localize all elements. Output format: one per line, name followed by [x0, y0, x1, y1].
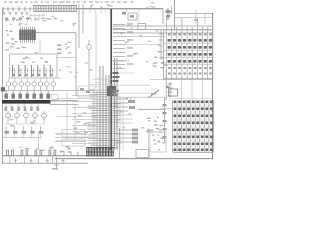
- wire IC pin stubs left: [95, 79, 100, 91]
- box tuner shield: [10, 54, 58, 78]
- resistor row R1-R4: [29, 14, 45, 21]
- text page header: [4, 1, 155, 8]
- text under connector: [46, 16, 76, 26]
- connector CN2 flat cable header: [33, 6, 77, 12]
- arrow pointer mark: [148, 90, 159, 98]
- wire horizontal y61: [112, 60, 130, 62]
- wire vertical feed x76: [75, 33, 77, 96]
- wire horizontal y57: [56, 57, 76, 59]
- text subcircuit cluster: [73, 112, 89, 138]
- capacitor glyph row 2: [3, 12, 29, 16]
- wire band extension upper: [50, 100, 78, 102]
- text right column notes: [153, 51, 168, 68]
- text top-left labels: [5, 16, 46, 21]
- wire bottom frame border: [55, 158, 213, 160]
- text mid labels: [57, 42, 71, 54]
- wire right frame border: [212, 13, 214, 159]
- capacitor row tuner C10-C16: [11, 65, 53, 77]
- wire horizontal y93: [112, 92, 150, 94]
- wire vertical x75: [74, 105, 76, 140]
- text fuse labels: [20, 147, 54, 152]
- wire vertical x166: [165, 70, 167, 100]
- box output stage: [150, 132, 166, 152]
- box small left: [51, 95, 58, 100]
- wire horizontal y44: [113, 44, 158, 46]
- glyph row 3: [5, 18, 29, 23]
- wire stubs right of bundle: [118, 129, 163, 144]
- crystal X1: [87, 40, 92, 92]
- grid2 row lines: [173, 106, 213, 141]
- ground symbol bottom: [52, 157, 59, 170]
- text mid col speckle: [58, 62, 93, 79]
- wire left labels row: [5, 46, 38, 53]
- regulator block top-right: [166, 6, 172, 20]
- wire ticks below top bus: [90, 9, 105, 13]
- wire right bus group: [113, 26, 212, 37]
- filter block Z1: [78, 86, 94, 97]
- wire matrix feed stubs: [194, 10, 205, 24]
- IC U2 24C08 eeprom: [19, 27, 36, 43]
- wire bus feed A: [78, 4, 80, 48]
- grid2 dark cells: [173, 99, 213, 153]
- junction left frame blob: [1, 87, 5, 91]
- wire ribbon bundle verticals: [94, 58, 117, 150]
- wire top-right horizontal bus A: [175, 13, 212, 15]
- wire vertical x148.5: [148, 128, 150, 159]
- capacitor ticks on x161: [159, 34, 164, 58]
- wire vertical x38 lower: [38, 132, 40, 150]
- wire bottom-left rail lower: [2, 162, 88, 164]
- component stack right-mid: [166, 82, 173, 98]
- wire grid link verticals: [182, 79, 203, 100]
- wire bottom-left rail upper: [2, 155, 88, 157]
- grid2 verticals: [173, 100, 214, 153]
- wire bundle left stubs: [56, 95, 97, 143]
- junction bundle blob: [107, 86, 116, 96]
- wire horizontal y85: [112, 84, 150, 86]
- wire top bus right jog: [162, 9, 164, 24]
- wire vertical x96: [95, 12, 97, 90]
- wire horizontal y109 to grid: [138, 108, 166, 110]
- wire mid-left horizontal: [2, 90, 95, 92]
- matrix grid verticals: [150, 18, 213, 80]
- wire top bus left faint: [4, 8, 33, 10]
- text tuner labels: [21, 56, 49, 63]
- transistor row Q10-Q14: [6, 111, 47, 124]
- component cluster under IC: [113, 72, 120, 96]
- box small B1: [138, 24, 146, 30]
- ticks toward center: [64, 152, 78, 156]
- wire lower pin stubs: [113, 99, 135, 123]
- text eeprom pin labels: [6, 30, 18, 45]
- wire left lower horizontal: [2, 137, 42, 139]
- component stack left of grid2: [162, 98, 173, 142]
- wire band drops: [10, 104, 38, 108]
- wire horizontal y73: [113, 72, 135, 74]
- box deflection B: [62, 139, 85, 146]
- wire main vertical bus: [110, 9, 112, 150]
- wire horizontal y97: [112, 96, 166, 98]
- wire ribbon bundle rungs: [87, 80, 122, 148]
- component cluster below bus: [122, 9, 139, 22]
- connector pad row P1: [5, 91, 50, 99]
- wire vertical x161: [160, 30, 162, 60]
- text mid-right labels: [119, 25, 161, 68]
- wire top-right horizontal bus B: [175, 17, 212, 19]
- capacitor row C20-C24: [5, 126, 44, 138]
- wire vertical x67: [66, 92, 68, 140]
- wire left frame border: [2, 9, 4, 164]
- text notes block: [146, 117, 163, 133]
- text IC caption: [90, 4, 112, 8]
- wire bundle right extra verticals: [120, 95, 123, 150]
- wire bottom-center rails: [55, 134, 86, 142]
- capacitor marks between rails: [14, 158, 65, 163]
- wire bus feed B: [82, 4, 84, 33]
- diode row D1-D6: [2, 6, 31, 12]
- box relay K1: [136, 150, 149, 158]
- text left row labels: [9, 119, 35, 127]
- connector CN4 board-to-board: [86, 147, 114, 156]
- resistor row R20-R25: [5, 104, 40, 111]
- transistor row Q1-Q8: [6, 79, 55, 91]
- connector dark band CN3: [2, 100, 51, 104]
- wire vertical x119.5: [119, 128, 121, 159]
- wire top-right border vertical: [174, 0, 176, 30]
- box deflection A: [62, 130, 85, 138]
- wire main top bus: [76, 8, 163, 10]
- wire under circles line: [4, 123, 44, 125]
- box IC3 small: [169, 89, 178, 96]
- fuse pair groups F1-F4: [6, 150, 56, 163]
- wire eeprom to bus: [36, 32, 76, 34]
- wire IC pin stubs right: [113, 23, 133, 68]
- text bottom-center labels: [60, 146, 72, 153]
- wire eeprom stub down: [39, 40, 41, 54]
- text eeprom caption: [10, 23, 27, 26]
- text output stage labels: [153, 134, 165, 150]
- wire band extension lower: [50, 103, 78, 105]
- text bundle-right labels: [117, 98, 145, 129]
- matrix diode-key cells: [164, 31, 212, 75]
